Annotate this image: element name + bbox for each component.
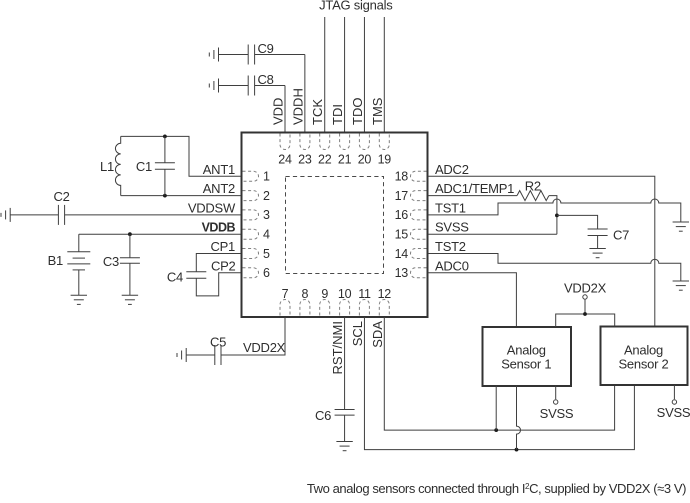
svg-text:9: 9 [321, 287, 328, 301]
svg-text:CP1: CP1 [210, 239, 235, 254]
wire TST2 from pin 14 to right ground [428, 254, 681, 282]
terminal SVSS sensor 1 [554, 400, 558, 404]
pad pin 5 [243, 249, 259, 259]
pin number 13 [395, 266, 409, 280]
capacitor C5 [210, 335, 226, 366]
pin number 11 [358, 287, 371, 301]
pin label ANT1 [203, 162, 235, 177]
wire ANT2 net (L1 bottom / C1 bottom to pin 2) [121, 195, 241, 197]
pin label CP1 [210, 239, 235, 254]
svg-text:SDA: SDA [370, 321, 385, 348]
svg-text:C8: C8 [258, 72, 274, 87]
pin label VDDH [290, 88, 305, 125]
pin label RST/NMI [330, 321, 345, 374]
pin number 21 [338, 153, 352, 167]
svg-text:TMS: TMS [370, 97, 385, 125]
pad pin 24 [280, 134, 290, 150]
wire CP1 from pin 5 to C4 [196, 254, 241, 272]
pin number 15 [395, 228, 409, 242]
wire VDD2X to sensors [556, 300, 615, 327]
svg-text:4: 4 [263, 228, 270, 242]
pin label VDDSW [188, 200, 236, 215]
caption [307, 481, 686, 496]
wire C8 to VDD [255, 85, 285, 87]
pin number 19 [378, 153, 392, 167]
capacitor C3 [103, 234, 140, 295]
wire SVSS stub sensor 2 [673, 385, 675, 399]
svg-text:19: 19 [378, 153, 392, 167]
node SCL junction with sensor 1 [515, 448, 519, 452]
svg-text:8: 8 [302, 287, 309, 301]
svg-text:SVSS: SVSS [657, 405, 690, 420]
wire JTAG TDI vertical to pin 21 [344, 17, 346, 132]
pin label SCL [350, 321, 365, 346]
wire R2 output down to SVSS [549, 196, 557, 235]
svg-text:Analog: Analog [507, 343, 546, 358]
IC exposed pad (inner dashed square) [286, 177, 384, 274]
svg-text:21: 21 [338, 153, 352, 167]
wire Analog Sensor 1 to SDA [495, 386, 497, 431]
ground at C8 [209, 79, 218, 93]
svg-text:TST1: TST1 [435, 200, 466, 215]
svg-text:C6: C6 [315, 408, 331, 423]
pin number 7 [282, 287, 289, 301]
pin label TCK [310, 99, 325, 125]
pin label ANT2 [203, 181, 235, 196]
svg-text:10: 10 [338, 287, 352, 301]
pin label ADC0 [435, 258, 469, 273]
wire VDDB net (B1/C3 to pin 4) [79, 233, 241, 235]
svg-text:TDI: TDI [330, 104, 345, 125]
wire pin 7 to C5 (VDD2X) [221, 317, 285, 355]
svg-text:TST2: TST2 [435, 239, 466, 254]
capacitor C1 [136, 136, 175, 195]
svg-text:C5: C5 [210, 335, 226, 350]
pin number 8 [302, 287, 309, 301]
wire SVSS stub sensor 1 [555, 386, 557, 400]
pad pin 1 [243, 171, 259, 181]
pad pin 18 [411, 171, 427, 181]
wire C2 left [10, 214, 58, 216]
pin number 16 [395, 208, 409, 222]
pin number 17 [395, 189, 409, 203]
pin label CP2 [211, 258, 236, 273]
ground at C2 [1, 208, 10, 222]
battery B1 [48, 234, 91, 295]
pin label TST1 [435, 200, 466, 215]
svg-text:ANT1: ANT1 [203, 162, 235, 177]
pin number 12 [378, 287, 392, 301]
wire C9 left [219, 54, 249, 56]
pin label ADC2 [435, 162, 469, 177]
resistor R2 [517, 179, 549, 201]
svg-text:ADC2: ADC2 [435, 162, 469, 177]
pin number 4 [263, 228, 270, 242]
svg-text:24: 24 [278, 153, 292, 167]
wire JTAG TDO vertical to pin 20 [363, 17, 365, 132]
terminal SVSS sensor 2 [672, 400, 676, 404]
svg-text:C4: C4 [167, 270, 183, 285]
svg-text:2: 2 [263, 189, 270, 203]
block Analog Sensor 1 [483, 327, 572, 386]
ground below B1 [71, 295, 87, 304]
svg-text:16: 16 [395, 208, 409, 222]
pin number 6 [263, 266, 270, 280]
pin number 24 [278, 153, 292, 167]
svg-text:14: 14 [395, 247, 409, 261]
pad pin 7 [280, 300, 290, 316]
pin label SDA [370, 321, 385, 348]
node R2/C7/SVSS junction [555, 214, 559, 218]
svg-text:SVSS: SVSS [540, 406, 574, 421]
wire JTAG TCK vertical to pin 22 [324, 17, 326, 132]
pad pin 22 [320, 134, 330, 150]
svg-text:SCL: SCL [350, 321, 365, 346]
svg-text:Analog: Analog [624, 343, 663, 358]
wire TST1 from pin 16 to right ground [428, 199, 681, 222]
svg-text:ANT2: ANT2 [203, 181, 235, 196]
pin label TST2 [435, 239, 466, 254]
pin number 22 [318, 153, 332, 167]
svg-text:20: 20 [358, 153, 372, 167]
capacitor C6 [315, 408, 355, 442]
svg-text:VDDH: VDDH [290, 88, 305, 125]
pin number 2 [263, 189, 270, 203]
svg-text:C2: C2 [53, 189, 69, 204]
wire VDDSW to pin 3 [65, 214, 241, 216]
svg-text:R2: R2 [525, 179, 541, 194]
wire ANT1 net (L1 top / C1 top to pin 1) [121, 136, 241, 176]
pin number 23 [298, 153, 312, 167]
pad pin 6 [243, 268, 259, 278]
pad pin 2 [243, 191, 259, 201]
svg-text:Two analog sensors connected t: Two analog sensors connected through I2C… [307, 481, 686, 496]
svg-text:Sensor 2: Sensor 2 [618, 357, 668, 372]
pin label TDI [330, 104, 345, 125]
node SDA junction with sensor 1 [494, 428, 498, 432]
capacitor C4 [167, 270, 206, 285]
pin label VDD [271, 98, 286, 125]
net label SVSS (sensor 1) [540, 406, 574, 421]
wire VDDH vertical to pin 23 [304, 55, 306, 133]
pad pin 3 [243, 210, 259, 220]
svg-text:C7: C7 [613, 228, 629, 243]
wire Analog Sensor 1 to SCL (hop over SDA) [517, 386, 521, 450]
svg-text:VDDB: VDDB [202, 221, 236, 235]
net label VDD2X [243, 340, 286, 355]
svg-text:15: 15 [395, 228, 409, 242]
pad pin 11 [359, 300, 369, 316]
svg-text:17: 17 [395, 189, 409, 203]
svg-text:C9: C9 [258, 41, 274, 56]
svg-text:VDD2X: VDD2X [564, 281, 607, 296]
svg-text:TDO: TDO [350, 98, 365, 125]
svg-text:3: 3 [263, 208, 270, 222]
wire C8 left [219, 85, 249, 87]
wire SCL from pin 11 to Analog Sensor 2 [364, 317, 634, 450]
svg-text:CP2: CP2 [211, 258, 236, 273]
pad pin 9 [320, 300, 330, 316]
capacitor C8 [248, 72, 273, 96]
svg-text:ADC0: ADC0 [435, 258, 469, 273]
ground at TST1 (top right) [673, 222, 689, 231]
net label SVSS (sensor 2) [657, 405, 690, 420]
svg-text:VDD: VDD [271, 98, 286, 125]
pad pin 17 [411, 191, 427, 201]
wire ADC2 from pin 18 to Analog Sensor 2 top [428, 176, 655, 325]
svg-text:C3: C3 [103, 254, 119, 269]
pin label SVSS [435, 220, 469, 235]
pin number 3 [263, 208, 270, 222]
pin number 14 [395, 247, 409, 261]
pad pin 20 [359, 134, 369, 150]
ground below C3 [122, 295, 138, 304]
pin number 5 [263, 247, 270, 261]
svg-text:B1: B1 [48, 253, 63, 268]
svg-text:1: 1 [263, 170, 270, 184]
ground below C7 [589, 249, 605, 258]
svg-text:5: 5 [263, 247, 270, 261]
svg-text:6: 6 [263, 266, 270, 280]
wire C7 tap [557, 215, 598, 229]
node C3 top junction [128, 232, 132, 236]
svg-text:VDD2X: VDD2X [243, 340, 286, 355]
svg-text:18: 18 [395, 170, 409, 184]
wire ADC1/TEMP1 from pin 17 to R2 [428, 195, 517, 197]
pin number 1 [263, 170, 270, 184]
wire JTAG TMS vertical to pin 19 [383, 17, 385, 132]
pin label TMS [370, 97, 385, 125]
wire SDA from pin 12 to Analog Sensor 2 [384, 317, 614, 430]
wire C9 to VDDH [255, 54, 305, 56]
ground at C5 [177, 348, 186, 362]
block Analog Sensor 2 [601, 327, 688, 386]
pad pin 10 [340, 300, 350, 316]
svg-text:23: 23 [298, 153, 312, 167]
ground below C6 [336, 442, 352, 451]
wire VDD vertical to pin 24 [284, 86, 286, 133]
svg-text:7: 7 [282, 287, 289, 301]
svg-text:ADC1/TEMP1: ADC1/TEMP1 [435, 181, 514, 196]
svg-text:VDDSW: VDDSW [188, 200, 236, 215]
pin label VDDB [202, 221, 236, 235]
pad pin 14 [411, 249, 427, 259]
pin number 10 [338, 287, 352, 301]
svg-text:JTAG signals: JTAG signals [319, 0, 393, 13]
capacitor C7 [588, 228, 630, 249]
net label VDD2X (sensors) [564, 281, 607, 296]
svg-text:11: 11 [358, 287, 371, 301]
pad pin 21 [340, 134, 350, 150]
svg-text:SVSS: SVSS [435, 220, 469, 235]
node C1 bottom junction [163, 194, 167, 198]
inductor L1 [100, 136, 121, 195]
wire SVSS from pin 15 [428, 233, 557, 235]
svg-text:C1: C1 [136, 159, 152, 174]
ground at TST2 (bottom right) [673, 281, 689, 290]
node C1 top junction [163, 135, 167, 139]
pad pin 12 [379, 300, 389, 316]
wire C5 to ground [186, 354, 215, 356]
pad pin 8 [300, 300, 310, 316]
svg-text:12: 12 [378, 287, 392, 301]
pin number 20 [358, 153, 372, 167]
capacitor C9 [248, 41, 273, 65]
pad pin 13 [411, 268, 427, 278]
wire RST/NMI pin 10 down to C6 [344, 317, 346, 410]
pad pin 4 [243, 229, 259, 239]
terminal VDD2X [583, 295, 587, 299]
wire ADC0 from pin 13 to Analog Sensor 1 top [428, 273, 516, 327]
svg-text:RST/NMI: RST/NMI [330, 321, 345, 374]
net label JTAG signals [319, 0, 393, 13]
svg-text:TCK: TCK [310, 99, 325, 125]
svg-text:13: 13 [395, 266, 409, 280]
svg-text:Sensor 1: Sensor 1 [501, 357, 551, 372]
node VDD2X junction [583, 312, 587, 316]
svg-text:L1: L1 [100, 159, 114, 174]
svg-text:22: 22 [318, 153, 332, 167]
pad pin 23 [300, 134, 310, 150]
IC U1 outline (QFN-24) [242, 133, 428, 318]
pad pin 15 [411, 229, 427, 239]
pin label ADC1/TEMP1 [435, 181, 514, 196]
pin number 9 [321, 287, 328, 301]
ground at C9 [209, 48, 218, 62]
pin label TDO [350, 98, 365, 125]
pad pin 19 [379, 134, 389, 150]
pin number 18 [395, 170, 409, 184]
capacitor C2 [53, 189, 69, 225]
wire C4 to CP2 pin 6 [196, 273, 241, 296]
pad pin 16 [411, 210, 427, 220]
